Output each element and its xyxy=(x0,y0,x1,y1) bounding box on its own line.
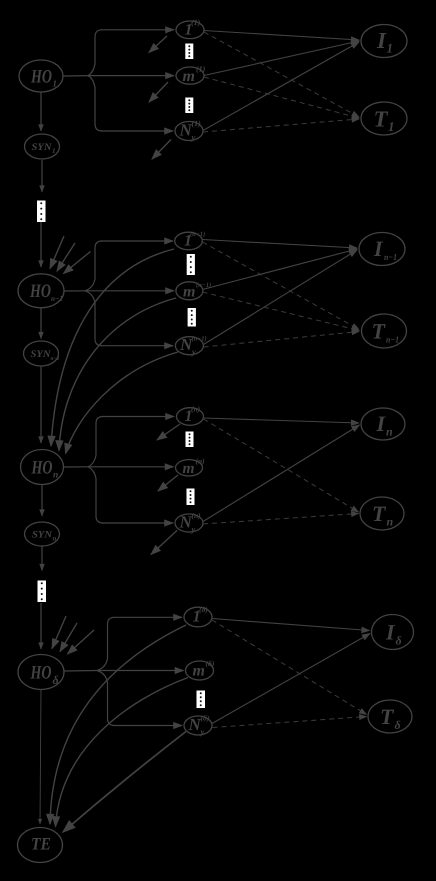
edge Ny(n-1) -> I(n-1) xyxy=(204,250,358,345)
svg-text:T: T xyxy=(372,319,387,344)
bus HO(n-1) -> hidden nodes sec2: branch to bottom node xyxy=(101,345,173,347)
edge 1(n-1) -> I(n-1) xyxy=(203,240,358,249)
node 1(1) xyxy=(176,21,204,39)
svg-text:(n): (n) xyxy=(191,405,201,414)
wire dots -> HO(n-1) xyxy=(40,222,42,267)
svg-text:(n): (n) xyxy=(196,456,206,465)
svg-text:y: y xyxy=(191,132,196,142)
svg-text:δ: δ xyxy=(395,718,401,732)
node m(n-1) xyxy=(176,282,203,300)
svg-text:(n−1): (n−1) xyxy=(190,231,205,238)
edge Ny(delta) -> TE xyxy=(63,732,186,833)
svg-text:SYN: SYN xyxy=(32,142,53,153)
bus HOn -> hidden nodes sec3: upper fork xyxy=(88,417,103,467)
svg-text:m: m xyxy=(183,68,195,85)
ellipsis below SYNn xyxy=(38,581,47,603)
node HOn xyxy=(21,450,64,485)
edge 1(1) -> T1 (dashed) xyxy=(204,32,359,117)
edge m(1) -> T1 (dashed) xyxy=(204,77,359,118)
svg-text:n−1: n−1 xyxy=(51,356,60,362)
wire SYN1 -> dots xyxy=(41,160,43,192)
node TE xyxy=(18,828,63,863)
node SYN1 xyxy=(25,134,60,159)
bus HOdelta -> hidden nodes sec4: trunk from HO xyxy=(64,670,97,673)
bus HO(n-1) -> hidden nodes sec2: trunk from HO xyxy=(64,290,85,292)
node I1 xyxy=(361,25,407,58)
node I(n-1) xyxy=(359,233,405,266)
bus HOdelta -> hidden nodes sec4: branch to bottom node xyxy=(114,725,183,727)
edge m(delta) -> TE (curve) xyxy=(56,678,189,827)
edge Ny(1) -> I1 xyxy=(203,42,359,131)
svg-text:(1): (1) xyxy=(191,18,201,27)
bus HOn -> hidden nodes sec3: branch to bottom node xyxy=(102,522,173,524)
svg-text:n: n xyxy=(53,535,57,543)
ellipsis 1(1)..m(1) xyxy=(185,44,193,60)
svg-text:m: m xyxy=(183,283,195,300)
node 1(delta) xyxy=(184,607,212,627)
svg-text:δ: δ xyxy=(53,673,59,687)
edge Ny(delta) -> Idelta xyxy=(212,634,370,724)
edge into HOdelta truncated 1 xyxy=(52,616,66,649)
edge into HOdelta truncated 2 xyxy=(60,623,77,652)
edge 1(delta) -> Idelta xyxy=(212,619,370,631)
edge Ny(n-1) -> T(n-1) (dashed) xyxy=(204,332,360,348)
node Ny(delta) xyxy=(184,716,212,735)
svg-text:(δ): (δ) xyxy=(199,605,208,614)
edge 1(1) -> I1 xyxy=(204,31,359,41)
wire HOn -> SYNn xyxy=(41,485,43,517)
ellipsis 1(n-1)..m(n-1) xyxy=(187,254,195,275)
svg-text:SYN: SYN xyxy=(31,349,52,360)
svg-text:(1): (1) xyxy=(196,65,206,74)
edge Ny(n) -> next (truncated) xyxy=(151,531,177,555)
bus HOn -> hidden nodes sec3: branch to top node xyxy=(102,416,174,418)
edge into HOdelta truncated 3 xyxy=(68,630,95,654)
svg-text:N: N xyxy=(179,513,193,532)
svg-text:HO: HO xyxy=(31,458,53,479)
svg-text:HO: HO xyxy=(30,663,52,684)
wire SYNn -> dots xyxy=(41,546,43,571)
edge Ny(n) -> In xyxy=(203,425,360,522)
svg-text:T: T xyxy=(374,107,389,132)
svg-text:1: 1 xyxy=(388,119,395,134)
svg-text:T: T xyxy=(372,501,387,526)
svg-text:TE: TE xyxy=(31,834,51,854)
svg-text:HO: HO xyxy=(30,67,52,88)
edge 1(n) -> Tn (dashed) xyxy=(204,419,359,512)
edge into HO(n-1) truncated 3 xyxy=(64,252,91,274)
bus HO1 -> hidden nodes sec1: upper fork xyxy=(88,30,102,76)
ellipsis 1(n)..m(n) xyxy=(186,432,194,448)
bus HO(n-1) -> hidden nodes sec2: branch to top node xyxy=(101,240,173,242)
edge 1(n-1) -> T(n-1) (dashed) xyxy=(203,242,360,330)
ellipsis m(delta)..Ny(delta) xyxy=(197,691,206,709)
svg-text:I: I xyxy=(373,236,384,261)
edge Ny(1) -> T1 (dashed) xyxy=(203,119,359,132)
svg-text:T: T xyxy=(380,704,395,729)
svg-text:n: n xyxy=(387,515,394,529)
svg-text:y: y xyxy=(191,524,196,534)
bus HOdelta -> hidden nodes sec4: branch to middle node xyxy=(97,670,184,672)
edge m(n-1) -> HOn (curve) xyxy=(59,298,176,451)
svg-text:1: 1 xyxy=(53,79,58,89)
node SYN(n-1) xyxy=(24,341,59,366)
edge Ny(n-1) -> HOn (curve) xyxy=(66,352,179,454)
svg-text:(n−1): (n−1) xyxy=(192,336,207,343)
node T1 xyxy=(361,102,407,135)
node SYNn xyxy=(25,522,60,546)
bus HO1 -> hidden nodes sec1: branch to top node xyxy=(101,29,174,31)
bus HOdelta -> hidden nodes sec4: branch to top node xyxy=(114,616,183,618)
svg-text:n−1: n−1 xyxy=(51,294,63,303)
svg-text:HO: HO xyxy=(29,281,51,302)
bus HO(n-1) -> hidden nodes sec2: upper fork xyxy=(85,241,102,291)
svg-text:(1): (1) xyxy=(192,119,202,128)
node 1(n) xyxy=(177,408,204,426)
node HOdelta xyxy=(18,655,64,690)
edge 1(1) -> next (truncated) xyxy=(149,36,167,53)
node Tdelta xyxy=(368,700,412,733)
edge m(n) -> next (truncated) xyxy=(158,475,178,491)
wire HO1 -> SYN1 xyxy=(40,93,42,132)
wire SYN(n-1) -> HOn xyxy=(40,367,42,444)
svg-text:I: I xyxy=(376,411,387,436)
svg-text:m: m xyxy=(183,460,195,477)
svg-text:n: n xyxy=(53,471,58,481)
edge Ny(1) -> next (truncated) xyxy=(152,140,171,160)
svg-text:(δ): (δ) xyxy=(206,659,215,668)
svg-text:N: N xyxy=(179,121,193,140)
node HO(n-1) xyxy=(18,274,64,308)
edge m(n-1) -> I(n-1) xyxy=(203,249,358,290)
node 1(n-1) xyxy=(175,232,203,250)
svg-text:n: n xyxy=(386,425,393,439)
svg-text:y: y xyxy=(200,727,205,737)
svg-text:n−1: n−1 xyxy=(384,252,397,262)
bus HO1 -> hidden nodes sec1: branch to bottom node xyxy=(101,130,173,132)
svg-text:δ: δ xyxy=(396,634,402,648)
node m(1) xyxy=(176,67,204,84)
bus HOdelta -> hidden nodes sec4: upper fork xyxy=(97,617,115,670)
svg-text:m: m xyxy=(193,663,205,680)
edge m(n-1) -> T(n-1) (dashed) xyxy=(203,292,360,331)
node Idelta xyxy=(372,615,414,650)
edge 1(delta) -> TE (curve) xyxy=(50,625,186,824)
ellipsis below SYN1 xyxy=(37,201,46,223)
bus HOn -> hidden nodes sec3: branch to middle node xyxy=(88,466,174,468)
edge 1(n) -> next (truncated) xyxy=(157,424,180,440)
bus HO(n-1) -> hidden nodes sec2: lower fork xyxy=(85,291,102,346)
wire HOdelta -> TE xyxy=(40,690,41,825)
edge Ny(delta) -> Tdelta (dashed) xyxy=(213,717,367,728)
edge m(1) -> next (truncated) xyxy=(149,82,168,102)
edge m(1) -> I1 xyxy=(204,41,359,76)
edge 1(delta) -> Tdelta (dashed) xyxy=(212,620,367,715)
bus HOdelta -> hidden nodes sec4: lower fork xyxy=(97,671,115,726)
bus HOn -> hidden nodes sec3: lower fork xyxy=(88,467,103,523)
svg-text:(n): (n) xyxy=(192,511,202,520)
node HO1 xyxy=(19,60,63,92)
node Tn xyxy=(360,497,404,530)
svg-text:(δ): (δ) xyxy=(201,714,210,723)
ellipsis m(n)..Ny(n) xyxy=(187,489,195,506)
node In xyxy=(361,408,405,440)
wire HO(n-1) -> SYN(n-1) xyxy=(40,308,42,339)
ellipsis m(1)..Ny(1) xyxy=(185,98,193,114)
edge 1(n-1) -> HOn (curve) xyxy=(51,249,174,446)
bus HO(n-1) -> hidden nodes sec2: branch to middle node xyxy=(85,290,174,292)
svg-text:I: I xyxy=(376,28,387,53)
svg-text:1: 1 xyxy=(387,41,394,56)
svg-text:SYN: SYN xyxy=(32,530,53,541)
edge into HO(n-1) truncated 1 xyxy=(50,236,64,269)
svg-text:n−1: n−1 xyxy=(386,335,399,345)
svg-text:(n−1): (n−1) xyxy=(196,282,211,289)
node Ny(n-1) xyxy=(175,337,203,355)
edge 1(n) -> In xyxy=(204,418,360,423)
node Ny(n) xyxy=(175,514,203,532)
wire dots -> HOdelta xyxy=(40,603,42,649)
edge Ny(n) -> Tn (dashed) xyxy=(203,514,359,525)
bus HOn -> hidden nodes sec3: trunk from HO xyxy=(64,466,89,468)
node Ny(1) xyxy=(175,122,203,141)
ellipsis m(n-1)..Ny(n-1) xyxy=(188,308,196,327)
svg-text:I: I xyxy=(385,620,396,645)
svg-text:y: y xyxy=(191,347,196,357)
svg-text:1: 1 xyxy=(52,147,56,155)
svg-text:N: N xyxy=(188,715,202,734)
bus HO1 -> hidden nodes sec1: lower fork xyxy=(88,76,102,131)
edge into HO(n-1) truncated 2 xyxy=(57,243,75,271)
bus HO1 -> hidden nodes sec1: branch to middle node xyxy=(88,75,174,77)
bus HO1 -> hidden nodes sec1: trunk from HO xyxy=(64,75,89,77)
node m(n) xyxy=(176,460,203,476)
node m(delta) xyxy=(186,661,214,680)
node T(n-1) xyxy=(362,314,407,348)
